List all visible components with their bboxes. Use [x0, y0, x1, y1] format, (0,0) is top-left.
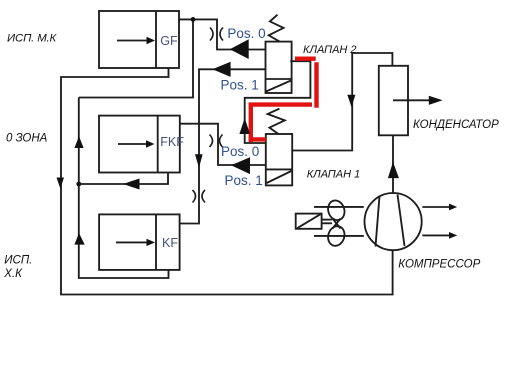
svg-text:ИСП. М.К: ИСП. М.К	[7, 32, 58, 44]
svg-text:KF: KF	[162, 236, 178, 250]
svg-text:Х.К: Х.К	[3, 268, 23, 280]
svg-text:GF: GF	[160, 34, 178, 48]
svg-text:Pos. 0: Pos. 0	[227, 26, 265, 41]
svg-text:Pos. 0: Pos. 0	[221, 144, 259, 159]
svg-text:FKF: FKF	[160, 135, 184, 149]
svg-text:Pos. 1: Pos. 1	[221, 78, 259, 93]
svg-text:0 ЗОНА: 0 ЗОНА	[6, 132, 48, 144]
svg-text:КЛАПАН 1: КЛАПАН 1	[307, 169, 361, 181]
svg-text:КОНДЕНСАТОР: КОНДЕНСАТОР	[413, 119, 499, 131]
svg-text:КЛАПАН 2: КЛАПАН 2	[303, 44, 357, 56]
svg-text:ИСП.: ИСП.	[4, 255, 32, 267]
svg-text:Pos. 1: Pos. 1	[225, 173, 263, 188]
svg-text:КОМПРЕССОР: КОМПРЕССОР	[398, 258, 480, 270]
